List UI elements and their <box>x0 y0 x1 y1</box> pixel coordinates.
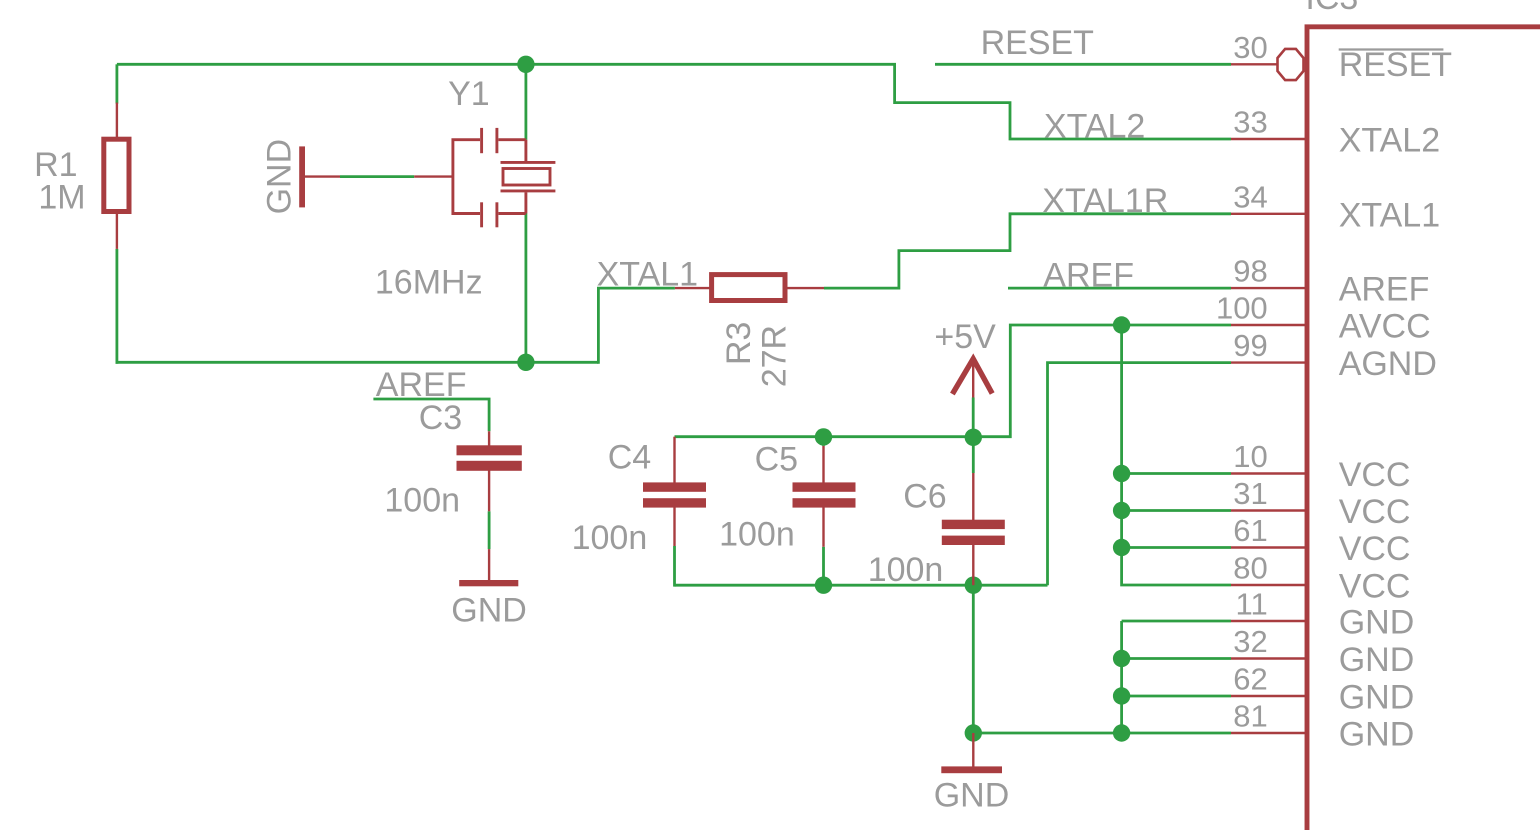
pin IC3 XTAL1 (34) <box>1231 213 1306 215</box>
wire Y1 gnd middle <box>340 175 414 178</box>
wire +5V stem lower <box>972 398 975 438</box>
svg-text:GND: GND <box>1339 716 1415 754</box>
junction GND pin 81 <box>1113 724 1130 741</box>
pin C5 top <box>822 446 824 483</box>
pin IC3 AGND (99) <box>1231 361 1306 363</box>
pin +5V stem <box>972 359 974 398</box>
svg-text:80: 80 <box>1233 551 1267 586</box>
pin C6 gnd stub <box>972 733 974 767</box>
junction VCC pin 61 <box>1113 539 1130 556</box>
junction AVCC branch <box>1113 316 1130 333</box>
svg-text:XTAL2: XTAL2 <box>1339 122 1440 160</box>
IC U IC3 body border <box>1307 27 1540 830</box>
PINS (red stubs) <box>117 49 1306 767</box>
wire C6 top <box>972 437 975 473</box>
wire Y1 bottom <box>525 214 528 363</box>
svg-text:61: 61 <box>1233 513 1267 548</box>
wire top cap rail to AVCC pin 100 <box>675 325 1232 437</box>
wire VCC bus vertical <box>1122 325 1231 585</box>
pin IC3 VCC (10) <box>1231 472 1306 474</box>
pin IC3 GND (81) <box>1231 732 1306 734</box>
svg-text:GND: GND <box>1339 641 1415 679</box>
junction C5 top <box>815 428 832 445</box>
svg-text:C4: C4 <box>608 438 651 476</box>
svg-text:RESET: RESET <box>1339 46 1452 84</box>
ground bar for C3 <box>459 580 518 586</box>
pin R1 top <box>116 103 118 139</box>
pin IC3 XTAL2 (33) <box>1231 138 1306 140</box>
svg-text:81: 81 <box>1233 699 1267 734</box>
pin C5 bottom <box>822 507 824 547</box>
pin IC3 VCC (61) <box>1231 546 1306 548</box>
wire XTAL1R net (R3 to pin 34) <box>824 214 1231 288</box>
svg-text:100n: 100n <box>868 551 944 589</box>
wire GND pin 11 <box>1122 620 1231 623</box>
svg-text:GND: GND <box>451 591 527 629</box>
wire GND bottom link <box>973 732 1121 735</box>
svg-text:GND: GND <box>1339 679 1415 717</box>
capacitor C5 plates <box>793 482 856 507</box>
svg-text:31: 31 <box>1233 476 1267 511</box>
svg-text:27R: 27R <box>755 325 793 387</box>
wire C3 middle <box>488 511 491 549</box>
resistor R1 <box>104 139 129 211</box>
svg-text:34: 34 <box>1233 179 1267 214</box>
wire Y1 top <box>525 64 528 139</box>
svg-text:1M: 1M <box>38 179 85 217</box>
svg-text:11: 11 <box>1236 587 1268 622</box>
crystal resonator Y1 <box>453 128 556 227</box>
svg-text:RESET: RESET <box>981 24 1094 62</box>
pin C6 top <box>972 473 974 521</box>
svg-text:C6: C6 <box>903 477 946 515</box>
svg-text:33: 33 <box>1233 105 1267 140</box>
svg-text:30: 30 <box>1233 30 1267 65</box>
wire AREF net left to C3 <box>373 399 489 431</box>
svg-text:VCC: VCC <box>1339 493 1411 531</box>
svg-text:16MHz: 16MHz <box>375 263 483 301</box>
junction GND pin 62 <box>1113 687 1130 704</box>
svg-text:C3: C3 <box>419 399 462 437</box>
svg-text:100n: 100n <box>384 482 460 520</box>
capacitor C6 plates <box>942 520 1005 545</box>
svg-text:+5V: +5V <box>934 318 996 356</box>
wire XTAL1 net <box>598 288 675 364</box>
svg-text:AGND: AGND <box>1339 345 1437 383</box>
wire GND bus vertical <box>1120 621 1123 733</box>
pin R1 bottom <box>116 211 118 249</box>
svg-text:C5: C5 <box>755 441 798 479</box>
wire GND pin 62 <box>1122 695 1231 698</box>
capacitor C3 plates <box>457 445 522 471</box>
svg-text:XTAL1: XTAL1 <box>597 255 698 293</box>
junction GND pin 32 <box>1113 650 1130 667</box>
wire bottom rail <box>116 361 599 364</box>
ground bar for Y1 <box>299 146 305 207</box>
svg-text:99: 99 <box>1233 328 1267 363</box>
pin C6 bottom <box>972 545 974 586</box>
wire C5 top <box>822 437 825 446</box>
svg-text:XTAL2: XTAL2 <box>1044 108 1145 146</box>
wire bottom cap rail <box>675 584 1048 587</box>
wire R1 bottom to rail <box>116 249 119 364</box>
pin R3 right <box>786 287 825 289</box>
pin IC3 AREF (98) <box>1231 287 1306 289</box>
svg-text:AREF: AREF <box>1043 257 1134 295</box>
capacitor C4 plates <box>643 482 706 507</box>
svg-text:GND: GND <box>261 139 299 215</box>
junction VCC pin 10 <box>1113 465 1130 482</box>
svg-text:10: 10 <box>1233 439 1267 474</box>
wire GND pin 32 <box>1122 657 1231 660</box>
+5V supply arrow <box>952 359 992 394</box>
pin C4 bottom <box>673 507 675 546</box>
pin C3 gnd stub <box>488 549 490 581</box>
junction VCC pin 31 <box>1113 502 1130 519</box>
svg-text:100n: 100n <box>572 519 648 557</box>
wire RESET net <box>935 63 1231 66</box>
svg-text:100: 100 <box>1216 291 1268 326</box>
pin C3 bottom <box>488 470 490 511</box>
svg-text:VCC: VCC <box>1339 530 1411 568</box>
svg-text:AVCC: AVCC <box>1339 308 1431 346</box>
pin C4 top <box>673 437 675 484</box>
pin IC3 VCC (80) <box>1231 584 1306 586</box>
resistor R3 <box>712 275 785 301</box>
junction Y1 top <box>517 56 534 73</box>
pin R3 left <box>675 287 711 289</box>
svg-text:AREF: AREF <box>1339 271 1430 309</box>
pin IC3 RESET (30) with bubble <box>1231 63 1278 65</box>
pin IC3 GND (11) <box>1231 620 1306 622</box>
pin IC3 GND (62) <box>1231 695 1306 697</box>
pin IC3 VCC (31) <box>1231 509 1306 511</box>
junction C5 bottom <box>815 577 832 594</box>
junction C6 gnd node <box>965 724 982 741</box>
svg-text:GND: GND <box>1339 604 1415 642</box>
pin Y1 gnd right <box>414 175 453 177</box>
svg-text:VCC: VCC <box>1339 568 1411 606</box>
svg-text:32: 32 <box>1233 624 1267 659</box>
wire R1 top stub <box>116 64 119 103</box>
svg-text:IC3: IC3 <box>1305 0 1358 17</box>
wire C4 bottom <box>673 546 676 587</box>
svg-text:VCC: VCC <box>1339 456 1411 494</box>
svg-text:R3: R3 <box>720 322 758 365</box>
pin Y1 gnd left <box>303 175 340 177</box>
svg-text:XTAL1R: XTAL1R <box>1042 182 1168 220</box>
wire VCC pin 10 <box>1122 472 1231 475</box>
wire top net (R1/Y1 top to XTAL2 step) <box>117 64 1231 139</box>
svg-text:98: 98 <box>1233 254 1267 289</box>
wire VCC pin 61 <box>1122 546 1231 549</box>
wire C5 bottom <box>822 547 825 587</box>
svg-text:XTAL1: XTAL1 <box>1339 196 1440 234</box>
wire GND pin 81 <box>1122 732 1231 735</box>
pin IC3 AVCC (100) <box>1231 324 1306 326</box>
pin IC3 GND (32) <box>1231 657 1306 659</box>
wire VCC pin 31 <box>1122 509 1231 512</box>
junction Y1 bottom rail <box>517 354 534 371</box>
wire AGND net to pin 99 <box>1048 363 1232 586</box>
ground bar for C6 <box>941 766 1002 773</box>
junction C6 bottom <box>965 577 982 594</box>
svg-text:100n: 100n <box>719 515 795 553</box>
wire AREF net right <box>1008 287 1231 290</box>
junction +5V / C6 top <box>965 429 982 446</box>
svg-text:GND: GND <box>934 776 1010 814</box>
svg-text:Y1: Y1 <box>448 75 490 113</box>
wire C6 to GND node <box>972 585 975 733</box>
svg-text:62: 62 <box>1233 662 1267 697</box>
pin C3 top <box>488 431 490 446</box>
